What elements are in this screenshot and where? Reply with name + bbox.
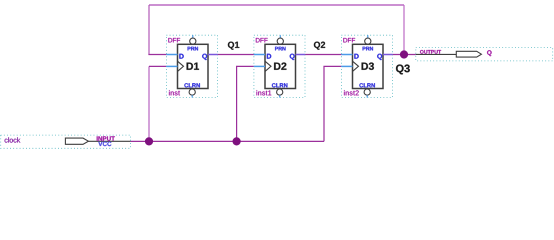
pin label Q	[290, 54, 295, 60]
selection box D3	[341, 35, 392, 97]
pin PRN bubble	[367, 35, 369, 38]
pin D stub	[341, 54, 352, 56]
instance label inst	[169, 90, 180, 95]
wire net Q3 to output	[393, 54, 416, 56]
pin D stub	[254, 54, 265, 56]
pin label PRN	[188, 47, 198, 51]
clock pin stub	[254, 65, 265, 67]
clock triangle	[178, 61, 184, 71]
selection box Q output	[416, 48, 553, 61]
input pin line	[88, 140, 130, 142]
pin Q stub	[296, 54, 306, 56]
label VCC	[98, 142, 111, 147]
pin label PRN	[363, 47, 373, 51]
symbol name DFF	[256, 38, 268, 42]
pin label CLRN	[359, 83, 375, 87]
clock pin stub	[166, 65, 177, 67]
input pin clock	[1, 135, 131, 148]
value label D3	[362, 63, 374, 70]
pin Q stub	[383, 54, 393, 56]
pin PRN bubble	[279, 35, 281, 38]
junction clock at D2	[233, 137, 241, 145]
output pin Q	[416, 48, 553, 61]
pin CLRN bubble	[277, 89, 283, 95]
pin D stub	[166, 54, 177, 56]
wire net Q1	[218, 54, 254, 56]
pin label CLRN	[184, 83, 200, 87]
wire feedback right vertical	[403, 5, 405, 55]
value label D2	[274, 63, 286, 70]
output pin line	[416, 53, 457, 55]
D flip-flop D1 (DFF)	[166, 35, 217, 97]
wire clock branch 1 into D1	[149, 65, 166, 67]
wire clock rail	[130, 140, 324, 142]
junction clock at D1	[145, 137, 153, 145]
pin PRN bubble	[192, 35, 194, 38]
wire net Q2	[305, 54, 341, 56]
junction node Q3	[400, 50, 408, 58]
input pin symbol	[65, 138, 88, 144]
net name clock	[5, 137, 21, 142]
wire clock branch 1 vertical	[148, 66, 150, 141]
symbol name DFF	[168, 38, 180, 42]
body D1	[178, 44, 209, 88]
net name Q	[487, 50, 492, 56]
clock triangle	[353, 61, 359, 71]
pin label CLRN	[272, 83, 288, 87]
pin Q stub	[208, 54, 218, 56]
D flip-flop D3 (DFF)	[341, 35, 392, 97]
node Q2	[314, 42, 325, 50]
selection box clock input	[1, 135, 131, 148]
pin label Q	[377, 54, 382, 60]
pin label PRN	[275, 47, 285, 51]
instance label inst1	[257, 90, 272, 95]
pin CLRN bubble	[189, 89, 195, 95]
wire clock branch 3	[324, 66, 341, 141]
pin CLRN bubble	[364, 89, 370, 95]
output pin symbol	[456, 51, 481, 57]
pin label D	[354, 54, 358, 59]
clock triangle	[265, 61, 271, 71]
wire feedback top horizontal (Q3 to D1)	[149, 4, 404, 6]
selection box D2	[254, 35, 305, 97]
wire feedback left vertical	[148, 5, 150, 55]
symbol name DFF	[343, 38, 355, 42]
pin label D	[267, 54, 271, 59]
pin label D	[179, 54, 183, 59]
wire clock branch 2	[237, 66, 254, 141]
label INPUT	[97, 136, 115, 140]
D flip-flop D2 (DFF)	[254, 35, 305, 97]
instance label inst2	[344, 90, 359, 95]
body D2	[265, 44, 296, 88]
node Q1	[228, 42, 239, 50]
wire into D input of D1	[148, 54, 166, 56]
pin label Q	[202, 54, 207, 60]
label OUTPUT	[420, 50, 441, 54]
body D3	[353, 44, 384, 88]
node Q3	[396, 65, 410, 75]
selection box D1	[166, 35, 217, 97]
clock pin stub	[341, 65, 352, 67]
value label D1	[187, 63, 199, 70]
